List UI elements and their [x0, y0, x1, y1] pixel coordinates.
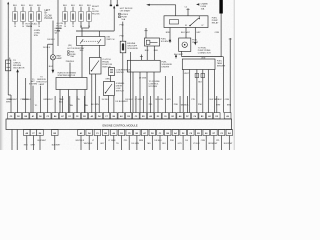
wire W13 clutch switch to ECM: [95, 74, 97, 113]
svg-text:PNK: PNK: [120, 24, 125, 26]
label PNK BLK: [198, 104, 203, 106]
svg-text:C2: C2: [220, 133, 222, 135]
svg-text:D6: D6: [39, 133, 41, 135]
svg-text:PNK: PNK: [120, 36, 125, 38]
label TN: [116, 143, 119, 145]
label BLK: [210, 99, 214, 101]
label PPL: [149, 104, 154, 106]
svg-text:GRY: GRY: [167, 99, 172, 101]
wire W15 4wd switch to ECM: [108, 96, 110, 113]
label CLUTCH PEDAL POSITION SWITCH: [102, 59, 112, 68]
glow plug E2 (left bank): [21, 5, 26, 28]
label TAN: [147, 142, 151, 145]
wire W13a clutch switch pin 2: [91, 74, 93, 113]
svg-text:BLK WHT: BLK WHT: [181, 32, 191, 34]
wire W42 throttle lamp to ECM: [39, 86, 41, 113]
label GRY: [100, 143, 105, 145]
label ORN: [215, 32, 220, 34]
fuse F5 GAGES FUSE 5A: [55, 27, 62, 35]
svg-text:OR START: OR START: [120, 10, 131, 13]
svg-text:SENDER: SENDER: [217, 66, 226, 68]
wire W25 relay top pin to crank fuse: [185, 6, 190, 15]
label ENGINE CONTROL MODULE: [103, 124, 138, 128]
svg-text:BLK: BLK: [29, 5, 34, 7]
label BLK/WHT: [224, 143, 233, 145]
label DK GRN: [155, 99, 163, 101]
label BRN/WHT: [208, 143, 218, 145]
svg-text:(2B): (2B): [68, 45, 72, 47]
label WHT: [31, 145, 36, 147]
svg-text:TO: TO: [35, 105, 38, 107]
solenoid L1 engine shutoff solenoid: [120, 41, 138, 53]
svg-text:DK BLU: DK BLU: [125, 99, 133, 101]
motor M1 injection timing stepper motor: [56, 72, 87, 89]
svg-text:SYSTEM: SYSTEM: [149, 86, 158, 88]
label BLK/WHT: [38, 140, 47, 142]
svg-text:PNK: PNK: [198, 104, 203, 106]
wire stepper pin 4: [84, 90, 86, 113]
label RED: [24, 145, 29, 147]
svg-text:D3: D3: [157, 116, 159, 118]
svg-text:BLK: BLK: [37, 5, 42, 7]
svg-text:C7: C7: [32, 133, 34, 135]
label DK BLU: [155, 140, 163, 142]
svg-text:10: 10: [22, 26, 24, 28]
label TO SERVICE THROTTLE LAMP: [36, 77, 47, 86]
svg-text:LT BLU: LT BLU: [193, 143, 200, 145]
glow plug E1 (left bank): [13, 5, 18, 28]
svg-text:10: 10: [72, 26, 74, 28]
wire W37 right feed: [229, 38, 232, 113]
svg-text:BRN: BRN: [227, 104, 232, 106]
svg-text:B6: B6: [166, 133, 168, 135]
wire W1 left feed: [7, 2, 11, 113]
glow plug E5 (right bank): [63, 5, 68, 28]
svg-text:GRN: GRN: [105, 79, 110, 81]
svg-text:BRN: BRN: [166, 32, 171, 34]
wire W14 convenience to 4wd switch: [110, 76, 112, 82]
wire W12a ignition to clutch switch: [98, 45, 100, 57]
solenoid L2 fuel solenoid: [145, 38, 172, 46]
wire W21 driver top pin: [140, 55, 143, 61]
svg-text:C7: C7: [105, 116, 107, 118]
label HOT IN RUN OR START: [120, 8, 133, 13]
label DK GRN: [131, 143, 139, 145]
glow plug E3 (left bank): [29, 5, 34, 28]
svg-text:PNK: PNK: [174, 104, 179, 106]
sender fuel tank sender: [182, 59, 225, 70]
glow plug E8 (right bank): [87, 5, 92, 28]
label DK BLU: [47, 39, 55, 41]
label PPL: [124, 140, 129, 142]
ECM top pin connector A9 (lone right): [224, 113, 231, 119]
svg-text:BLK/WHT: BLK/WHT: [52, 145, 61, 147]
svg-text:D2: D2: [17, 116, 19, 118]
svg-text:10: 10: [38, 26, 40, 28]
label TO ALTERNATOR: [116, 101, 129, 103]
svg-text:10: 10: [14, 26, 16, 28]
svg-text:BLK: BLK: [13, 5, 18, 7]
label DK BLU: [43, 47, 51, 49]
label DK: [185, 140, 188, 142]
label PPL: [77, 99, 82, 101]
label PNK/BLK: [23, 99, 32, 101]
svg-text:ORN: ORN: [201, 140, 206, 142]
wire W18 fuel solenoid feed: [144, 28, 147, 38]
svg-text:LAMP: LAMP: [56, 57, 62, 60]
label TO A/C SYSTEM: [29, 79, 38, 86]
indicator lamp WAIT LAMP: [50, 54, 62, 60]
label PNK: [174, 104, 179, 106]
label ORN: [201, 57, 206, 59]
svg-text:BRN/WHT: BRN/WHT: [44, 99, 54, 101]
svg-text:WHT: WHT: [184, 73, 189, 75]
svg-text:BLK: BLK: [59, 102, 63, 104]
svg-text:BLK: BLK: [63, 5, 68, 7]
ECM top pin connectors: [8, 113, 220, 119]
wire driver pin 3: [146, 72, 148, 113]
wire W22 drop: [164, 76, 166, 113]
svg-text:ORN: ORN: [215, 32, 220, 34]
label ORN/WHT: [6, 99, 11, 103]
label BRN: [227, 104, 232, 106]
svg-text:BLK: BLK: [87, 5, 92, 7]
svg-text:A9: A9: [226, 115, 228, 118]
svg-text:C2: C2: [135, 116, 137, 118]
wire driver pin 2: [139, 72, 141, 113]
svg-text:D7: D7: [213, 133, 215, 135]
glow plug E7 (right bank): [79, 5, 84, 28]
svg-text:C3: C3: [47, 116, 49, 118]
label BRN/WHT: [44, 99, 54, 101]
svg-text:B3: B3: [201, 116, 203, 118]
label BRN: [139, 140, 144, 142]
svg-text:B3: B3: [197, 133, 199, 135]
label DK GRN: [91, 104, 99, 106]
label WHT/BLK: [84, 143, 93, 145]
label PPL: [192, 99, 197, 101]
svg-text:HOT IN RUN: HOT IN RUN: [68, 48, 80, 50]
svg-text:DK BLU/WHT: DK BLU/WHT: [116, 101, 129, 103]
wire W28 relay pin to fuel pump: [181, 28, 191, 39]
svg-text:80A: 80A: [57, 30, 61, 33]
svg-text:DK BLU: DK BLU: [155, 140, 163, 142]
glow plug E6 (right bank): [71, 5, 76, 28]
label GRY: [178, 143, 183, 145]
wire driver pin 4: [153, 72, 155, 113]
svg-text:GLOW: GLOW: [45, 15, 53, 17]
svg-text:A7: A7: [143, 132, 145, 135]
svg-text:BLK WHT: BLK WHT: [174, 54, 184, 56]
label TO CRUISE CONTROL SYSTEM: [149, 81, 161, 88]
svg-text:DK BLU: DK BLU: [43, 47, 51, 49]
fuse F4 CRANK FUSE 10A: [196, 2, 208, 10]
label TAN/BLK: [59, 98, 64, 103]
svg-text:B6: B6: [113, 116, 115, 118]
wire stepper pin 1: [59, 90, 61, 113]
label DK BLU: [35, 105, 38, 107]
label DK BLU: [102, 99, 110, 101]
svg-text:D6: D6: [39, 116, 41, 118]
wire driver pin 1: [132, 72, 134, 113]
wire W4 lamp to ground arrow: [52, 60, 55, 74]
buzzer convenience center: [109, 68, 131, 76]
label TAN/BLK: [214, 98, 223, 101]
wire W19 fuel solenoid to driver: [146, 46, 148, 60]
svg-text:C6: C6: [164, 116, 166, 118]
label 4 BRN / 1 RED / STA: [34, 30, 41, 37]
svg-text:RELAY: RELAY: [212, 22, 219, 25]
svg-text:LEFT: LEFT: [45, 10, 51, 12]
label LT GRN: [139, 78, 147, 80]
label BLK: [145, 50, 149, 52]
wire W24 relay feed with arrow: [146, 4, 176, 16]
svg-text:WHT: WHT: [6, 102, 11, 104]
label BLK: [162, 143, 166, 145]
svg-text:RED: RED: [24, 145, 29, 147]
wire W10 ignition to stepper: [80, 45, 85, 77]
svg-text:WHT/BLK: WHT/BLK: [76, 140, 85, 142]
wire W39 bottom left drop: [16, 130, 18, 151]
wire stepper pin 3: [76, 90, 78, 113]
fuse F1 GLOW PLUG FUSE 80A: [57, 23, 63, 32]
wire W29 relay pin to prime connector: [194, 28, 201, 46]
label PNK: [170, 140, 175, 142]
svg-text:BRN/WHT: BRN/WHT: [208, 143, 218, 145]
label TAN/BLK: [181, 103, 190, 106]
svg-text:D3: D3: [120, 133, 122, 135]
label BLK: [49, 66, 54, 68]
svg-text:PNK: PNK: [170, 140, 175, 142]
wire W31 sender pin WHT: [184, 70, 189, 113]
label TO FUEL PUMP PRIME CONNECTOR: [198, 48, 211, 55]
wire W26 B+ to pump junction: [220, 14, 222, 57]
label LT BLU: [193, 143, 200, 145]
wire W8 feed stub: [116, 0, 118, 6]
label ORN/WHT: [8, 99, 18, 101]
label TAN/BLK: [84, 104, 88, 107]
wires from ECM bottom pins: [27, 136, 230, 151]
svg-text:TAN: TAN: [147, 142, 151, 145]
svg-text:A6: A6: [113, 132, 115, 135]
svg-text:PLUGS: PLUGS: [92, 14, 100, 16]
label RED: [154, 50, 159, 52]
svg-text:B2: B2: [83, 116, 85, 118]
svg-text:BLK: BLK: [79, 5, 84, 7]
battery feed B+ bar: [219, 0, 222, 14]
svg-text:ORN: ORN: [201, 57, 206, 59]
arrow service tool: [175, 54, 177, 59]
svg-text:85: 85: [185, 25, 187, 27]
wire W7 feed stub: [110, 0, 112, 6]
svg-text:D7: D7: [186, 116, 188, 118]
svg-text:DRIVER: DRIVER: [162, 66, 170, 68]
svg-text:10: 10: [64, 26, 66, 28]
svg-text:SYSTEM: SYSTEM: [29, 84, 38, 86]
label HOT AT ALL TIMES: [26, 23, 39, 29]
svg-text:TAN/BLK: TAN/BLK: [214, 98, 223, 101]
label ORN: [225, 99, 230, 101]
svg-text:TAN/BLK: TAN/BLK: [181, 103, 190, 106]
svg-text:BLK: BLK: [21, 5, 26, 7]
svg-text:GRY: GRY: [196, 32, 201, 34]
svg-text:BLK/WHT: BLK/WHT: [224, 143, 233, 145]
wire W35 sender pin right: [213, 70, 215, 113]
svg-text:ENGINE CONTROL MODULE: ENGINE CONTROL MODULE: [103, 124, 138, 128]
svg-text:INDICATOR: INDICATOR: [13, 66, 25, 69]
motor M2 fuel pump: [179, 38, 199, 51]
svg-text:A2: A2: [80, 132, 82, 135]
svg-text:PLUGS: PLUGS: [45, 18, 53, 20]
svg-text:BLK/WHT: BLK/WHT: [38, 140, 47, 142]
svg-text:PNK/BLK: PNK/BLK: [23, 99, 32, 101]
glow plug E4 (left bank): [37, 5, 42, 28]
svg-text:LAMP: LAMP: [39, 83, 45, 86]
wire W27 relay pin BRN: [166, 28, 171, 44]
label BLK WHT: [174, 54, 184, 56]
wire W9 PNK feed to shutoff solenoid: [122, 22, 124, 42]
label DK BLU: [125, 99, 133, 101]
wire W40 check engine indicator to ECM: [16, 69, 19, 113]
label RIGHT B+ GLOW PLUGS: [92, 6, 100, 16]
wire W16 shutoff solenoid to ECM: [122, 53, 124, 113]
svg-text:10A: 10A: [121, 18, 125, 21]
wire W6 bus to ignition feed: [76, 5, 115, 31]
wire W3a branch to ECM pin: [48, 44, 53, 112]
svg-text:DK BLU: DK BLU: [102, 99, 110, 101]
svg-text:LT GRN: LT GRN: [139, 78, 147, 80]
label GRN: [105, 79, 110, 81]
wire W12 fuse 20A to stepper motor: [69, 63, 71, 78]
module U2 engine control module outline: [6, 119, 232, 130]
wire W3 wait lamp branch: [52, 21, 54, 55]
switch S2 clutch pedal position switch: [90, 58, 102, 75]
svg-text:WHT/BLK: WHT/BLK: [84, 143, 93, 145]
wire W38 bottom left drop: [11, 130, 13, 151]
wire W32 sender pin with connector: [195, 70, 199, 113]
switch S3 4 wheel drive low switch: [104, 82, 126, 96]
svg-text:ORN/WHT: ORN/WHT: [8, 99, 18, 101]
svg-text:C3: C3: [159, 133, 161, 135]
wire W17 drop: [130, 52, 132, 113]
module U1 fuel solenoid driver: [127, 60, 172, 72]
wire stepper pin 2: [68, 90, 70, 113]
label PNK: [120, 36, 125, 38]
switch S1 ignition switch: [76, 31, 105, 45]
svg-text:ORN: ORN: [225, 99, 230, 101]
svg-text:CONNECTOR: CONNECTOR: [198, 52, 211, 54]
svg-text:DK GRN: DK GRN: [155, 99, 163, 101]
label LT: [92, 140, 95, 142]
fuse F2 ECM B FUSE 10A: [119, 13, 129, 21]
wire W41 a/c to ECM: [32, 86, 34, 113]
ECM bottom pin connectors: [24, 130, 233, 136]
label PNK/BLK: [21, 99, 30, 101]
svg-text:TIMES: TIMES: [26, 26, 33, 28]
label LEFT B+ GLOW PLUGS: [45, 10, 53, 20]
wire W36 ORN feed down: [223, 57, 225, 113]
svg-text:A3: A3: [120, 115, 122, 118]
svg-text:A2: A2: [208, 115, 210, 118]
fuse F3 20A HOT IN RUN: [68, 45, 80, 58]
svg-text:DK BLU: DK BLU: [47, 39, 55, 41]
svg-text:B2: B2: [136, 133, 138, 135]
svg-text:PNK/BLK: PNK/BLK: [66, 61, 75, 63]
relay K1 fuel pump relay: [164, 16, 219, 28]
wire W43 stub: [25, 78, 27, 113]
label TAN: [69, 104, 73, 107]
label IGNITION SWITCH: [106, 37, 114, 41]
svg-text:PUMP: PUMP: [192, 42, 199, 44]
svg-text:D2: D2: [182, 133, 184, 135]
connector C100 on wire W1: [6, 58, 11, 71]
wire W33 sender pin with connector: [198, 70, 204, 113]
wire W20 fuel solenoid to driver: [153, 46, 155, 60]
svg-text:STA: STA: [34, 34, 38, 37]
svg-text:C2: C2: [185, 6, 187, 8]
label ORN: [201, 140, 206, 142]
svg-text:STEPPER MOTOR: STEPPER MOTOR: [58, 75, 76, 77]
svg-text:LT GRN: LT GRN: [108, 140, 116, 142]
svg-text:BLK: BLK: [71, 5, 76, 7]
svg-text:GRY: GRY: [100, 143, 105, 145]
svg-text:A7: A7: [61, 115, 63, 118]
label LT GRN: [135, 99, 143, 101]
wire W34a sender pin left: [182, 70, 184, 113]
label PNK: [120, 24, 125, 26]
svg-text:BRN: BRN: [139, 140, 144, 142]
label TO CHECK ENGINE INDICATOR: [13, 60, 25, 70]
wire stubs into ECM top pins: [55, 96, 217, 113]
label PNK BLK: [66, 61, 75, 63]
label GRY: [167, 99, 172, 101]
label PPL: [216, 140, 221, 142]
label WHT: [216, 104, 221, 106]
svg-text:SWITCH: SWITCH: [106, 39, 114, 41]
wire W2 glow plug feed down to ECM: [30, 25, 32, 113]
svg-text:10A: 10A: [201, 7, 205, 10]
label WHT/BLK: [76, 140, 85, 142]
wire W30 pump to junction bus: [182, 51, 223, 56]
svg-text:BLK: BLK: [198, 82, 202, 84]
wire W23 drop: [172, 76, 174, 113]
svg-text:87: 87: [202, 25, 204, 27]
label BLK/WHT: [52, 145, 61, 147]
svg-text:DK GRN: DK GRN: [131, 143, 139, 145]
label LT GRN: [108, 140, 116, 142]
svg-text:GRY: GRY: [178, 143, 183, 145]
wire W34 sender pin: [207, 70, 209, 113]
svg-text:SOLENOID: SOLENOID: [127, 48, 138, 50]
wire W5 column feed: [57, 0, 59, 46]
svg-text:DK GRN: DK GRN: [91, 104, 99, 106]
